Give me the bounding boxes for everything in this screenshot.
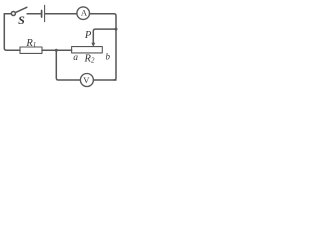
- svg-text:V: V: [83, 75, 90, 85]
- svg-text:a: a: [73, 53, 78, 63]
- svg-text:b: b: [106, 52, 111, 62]
- svg-text:S: S: [18, 13, 25, 27]
- svg-text:P: P: [84, 30, 92, 41]
- svg-text:R2: R2: [84, 53, 95, 64]
- svg-text:R1: R1: [25, 38, 36, 49]
- svg-text:A: A: [81, 7, 88, 17]
